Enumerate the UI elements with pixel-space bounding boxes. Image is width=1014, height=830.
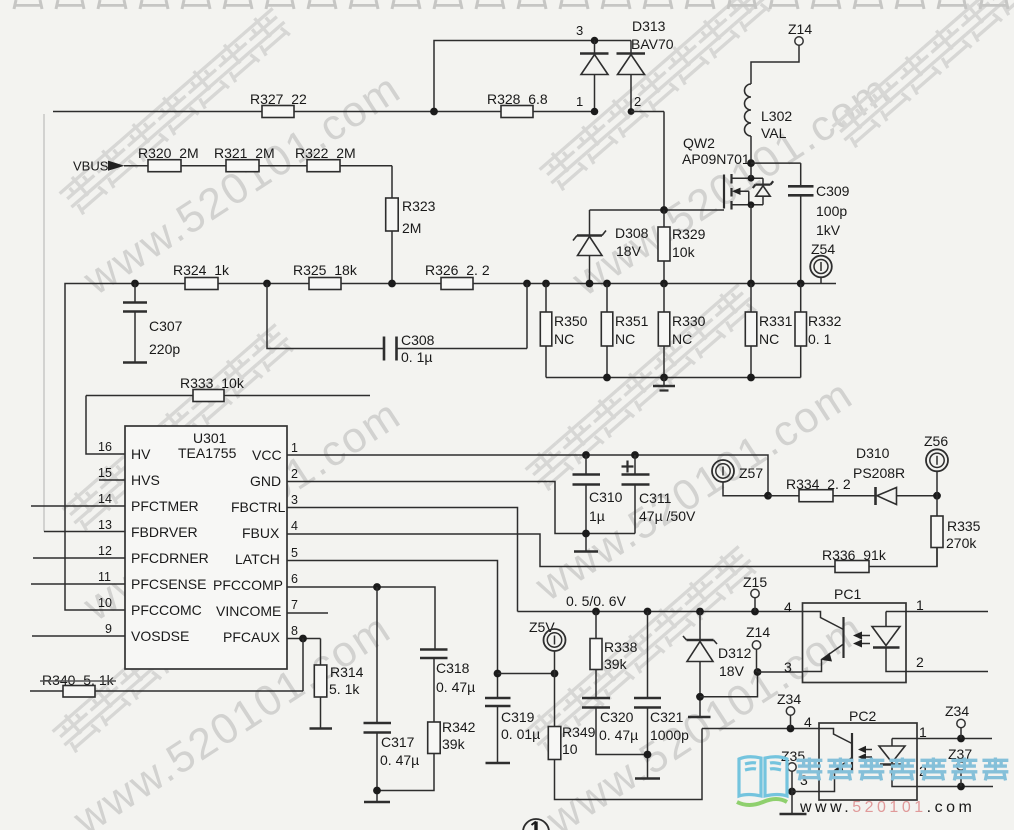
svg-text:L302: L302	[761, 108, 792, 124]
resistor R325	[309, 278, 341, 290]
node Z15 terminal	[751, 589, 759, 597]
node bus D308	[586, 280, 594, 288]
svg-text:Z14: Z14	[746, 624, 770, 640]
wire Z14 to L302	[751, 45, 799, 84]
svg-text:14: 14	[98, 492, 112, 506]
svg-text:R329: R329	[672, 226, 706, 242]
svg-text:C318: C318	[436, 660, 470, 676]
resistor R331	[745, 284, 757, 378]
svg-text:6: 6	[291, 572, 298, 586]
svg-text:FBUX: FBUX	[242, 525, 280, 541]
svg-text:R342: R342	[442, 719, 476, 735]
svg-text:C317: C317	[381, 734, 415, 750]
svg-text:R326 2. 2: R326 2. 2	[425, 262, 490, 278]
node rail R330	[660, 374, 668, 382]
resistor R328	[501, 106, 533, 118]
node drain	[748, 175, 755, 182]
node rail R351	[603, 374, 611, 382]
svg-text:220p: 220p	[149, 341, 180, 357]
node C310 top	[582, 451, 590, 459]
resistor R349	[548, 727, 702, 800]
wire PC2 pin3 stub	[792, 791, 819, 793]
wire Z37 stub	[960, 770, 962, 786]
svg-text:LATCH: LATCH	[235, 551, 280, 567]
logo chinese text	[796, 757, 1008, 780]
node C310 gnd row	[582, 530, 590, 538]
svg-text:Z57: Z57	[739, 465, 763, 481]
wire PC1 pin1 out	[906, 611, 988, 613]
svg-text:R331: R331	[759, 313, 793, 329]
ground rail	[653, 378, 675, 391]
node 1	[591, 108, 599, 116]
svg-text:R327 22: R327 22	[250, 91, 307, 107]
svg-text:C321: C321	[650, 709, 684, 725]
svg-text:HV: HV	[131, 446, 151, 462]
wire pin2 GND row	[287, 482, 635, 534]
svg-text:R338: R338	[604, 639, 638, 655]
resistor R327	[262, 106, 294, 118]
svg-text:R314: R314	[330, 664, 364, 680]
watermark tile 1 chinese	[57, 5, 294, 217]
svg-text:0. 01µ: 0. 01µ	[501, 726, 540, 742]
top edge cut-off watermark row	[10, 0, 1012, 9]
node Z34 left	[787, 725, 795, 733]
svg-text:C309: C309	[816, 183, 850, 199]
node 2	[628, 108, 635, 115]
svg-text:R323: R323	[402, 198, 436, 214]
svg-text:C308: C308	[401, 332, 435, 348]
svg-text:0. 47µ: 0. 47µ	[436, 679, 475, 695]
svg-text:R350: R350	[554, 313, 588, 329]
svg-text:0. 47µ: 0. 47µ	[380, 752, 419, 768]
wire VBUS row	[124, 165, 392, 167]
resistor R338	[590, 612, 602, 699]
svg-text:10: 10	[562, 741, 578, 757]
svg-text:0. 1: 0. 1	[808, 331, 832, 347]
wire gate branch	[590, 210, 725, 236]
svg-text:R336 91k: R336 91k	[822, 547, 887, 563]
node C311 top	[631, 451, 639, 459]
wire L302 to drain	[750, 136, 752, 178]
svg-text:PFCDRNER: PFCDRNER	[131, 550, 209, 566]
wire Z57 to node	[723, 482, 768, 496]
svg-text:R321 2M: R321 2M	[214, 145, 275, 161]
wire pin7 VINCOME stub	[287, 612, 328, 614]
capacitor C311	[622, 455, 650, 534]
svg-text:4: 4	[784, 599, 792, 615]
svg-text:VCC: VCC	[252, 447, 282, 463]
svg-text:QW2: QW2	[683, 135, 715, 151]
svg-text:2: 2	[291, 467, 298, 481]
svg-text:VBUS: VBUS	[73, 159, 109, 174]
PC2 coupling arrows	[858, 746, 872, 761]
node Z5V column	[551, 670, 559, 678]
diode D313a	[580, 41, 609, 112]
svg-text:3: 3	[291, 493, 298, 507]
node C317 bottom	[373, 787, 381, 795]
svg-text:C319: C319	[501, 709, 535, 725]
watermark tile 6 chinese	[523, 543, 760, 755]
watermark tile 2 chinese	[537, 0, 774, 193]
svg-text:PFCSENSE: PFCSENSE	[131, 576, 206, 592]
resistor R321	[226, 160, 259, 172]
svg-text:BAV70: BAV70	[631, 36, 674, 52]
wire Z56 stub	[936, 471, 938, 495]
svg-text:D313: D313	[632, 18, 666, 34]
resistor R320	[148, 160, 181, 172]
svg-text:13: 13	[98, 518, 112, 532]
wire Z34 right stub	[960, 728, 962, 739]
resistor R322	[307, 160, 340, 172]
svg-text:R349: R349	[562, 724, 596, 740]
svg-text:NC: NC	[615, 331, 635, 347]
svg-text:VINCOME: VINCOME	[216, 603, 281, 619]
node bus R332	[797, 280, 805, 288]
strike mark R340	[40, 680, 116, 682]
svg-text:PFCCOMC: PFCCOMC	[131, 602, 202, 618]
zener D312	[683, 612, 717, 718]
wire pin8 PFCAUX stub	[287, 638, 321, 640]
wire pin6 PFCCOMP row	[287, 587, 435, 650]
svg-text:Z5V: Z5V	[529, 619, 555, 635]
node Z35 terminal	[788, 763, 796, 771]
svg-text:R322 2M: R322 2M	[295, 145, 356, 161]
svg-text:2M: 2M	[402, 220, 421, 236]
svg-text:1: 1	[919, 724, 927, 740]
svg-text:R332: R332	[808, 313, 842, 329]
svg-text:39k: 39k	[442, 736, 466, 752]
watermark tile 7 chinese	[830, 0, 1014, 150]
wire D312 to PC1 pin3	[700, 672, 758, 697]
PC1 phototransistor	[803, 612, 844, 672]
svg-text:1µ: 1µ	[589, 508, 605, 524]
resistor R332	[795, 284, 807, 378]
logo book icon	[739, 757, 787, 796]
node row Z15	[751, 608, 759, 616]
svg-text:12: 12	[98, 544, 112, 558]
node row C321	[644, 608, 652, 616]
svg-text:5. 1k: 5. 1k	[329, 681, 360, 697]
wire PC1 pin3 row	[758, 671, 803, 673]
capacitor C318	[420, 650, 448, 723]
svg-text:FBCTRL: FBCTRL	[231, 499, 286, 515]
svg-text:GND: GND	[250, 473, 281, 489]
svg-text:Z15: Z15	[743, 574, 767, 590]
svg-text:3: 3	[784, 659, 792, 675]
resistor R335	[931, 496, 943, 567]
node pin8	[299, 635, 307, 643]
wire NC bottom rail	[546, 377, 801, 379]
wire R334 to D310	[833, 495, 876, 497]
node Z35 junction	[788, 788, 796, 796]
svg-text:1000p: 1000p	[650, 727, 689, 743]
VBUS arrow	[108, 161, 125, 171]
wire R323 to bus	[391, 231, 393, 284]
resistor R342	[377, 722, 440, 791]
PC1 coupling arrows	[853, 632, 870, 648]
svg-text:1: 1	[916, 597, 924, 613]
wire pin8 to R340 row	[302, 639, 304, 692]
test point Z56	[926, 449, 948, 471]
svg-text:PFCAUX: PFCAUX	[223, 629, 280, 645]
node Z34 terminal right	[957, 719, 965, 727]
svg-text:18V: 18V	[719, 663, 745, 679]
page marker circled 1	[523, 819, 549, 830]
wire PC2 pin2 out	[917, 786, 993, 788]
svg-text:18V: 18V	[616, 243, 642, 259]
ground Z35	[780, 792, 807, 815]
resistor R340	[30, 686, 303, 698]
wire Z35 stub	[791, 771, 793, 791]
svg-text:R351: R351	[615, 313, 649, 329]
svg-text:15: 15	[98, 466, 112, 480]
svg-text:Z14: Z14	[788, 21, 812, 37]
svg-text:HVS: HVS	[131, 472, 160, 488]
svg-text:16: 16	[98, 440, 112, 454]
PC2 phototransistor	[819, 729, 852, 792]
diode D310	[876, 487, 938, 505]
wire pin4 FBUX row	[287, 534, 835, 567]
svg-text:Z56: Z56	[924, 433, 948, 449]
wire C319 to Z5V column	[498, 673, 555, 675]
node row D312	[696, 608, 704, 616]
svg-text:270k: 270k	[946, 535, 977, 551]
capacitor C317	[364, 587, 392, 802]
svg-text:4: 4	[291, 519, 298, 533]
node Z14 terminal	[795, 37, 803, 45]
svg-text:R324 1k: R324 1k	[173, 262, 230, 278]
node bus R351	[603, 280, 611, 288]
PC1 LED	[872, 612, 906, 672]
wire PC2 pin1 out	[917, 738, 992, 740]
capacitor C321	[634, 612, 661, 779]
node bus R330	[660, 280, 668, 288]
svg-text:R330: R330	[672, 313, 706, 329]
svg-text:NC: NC	[554, 331, 574, 347]
svg-text:R320 2M: R320 2M	[138, 145, 199, 161]
node bus R350	[542, 280, 550, 288]
wire pin15 stub	[99, 479, 125, 481]
node Z37 junction	[957, 783, 965, 791]
svg-text:C311: C311	[639, 490, 672, 506]
logo green underline	[737, 799, 787, 805]
svg-text:100p: 100p	[816, 203, 847, 219]
wire node2 to gate column	[631, 112, 664, 211]
watermark tile 4 chinese	[523, 281, 760, 493]
svg-text:39k: 39k	[604, 656, 628, 672]
node row R338	[592, 608, 600, 616]
resistor R329	[658, 210, 670, 284]
svg-text:C320: C320	[600, 709, 634, 725]
wire to C309	[751, 163, 801, 186]
node rail R331	[747, 374, 755, 382]
resistor R350	[540, 284, 552, 378]
node L302 bottom	[747, 159, 755, 167]
svg-text:2: 2	[634, 94, 641, 109]
wire pin13 row	[44, 531, 125, 533]
wire Z15 stub	[754, 598, 756, 612]
resistor R314	[310, 639, 333, 729]
watermark tile 3 chinese	[60, 321, 297, 533]
svg-text:10: 10	[98, 596, 112, 610]
wire R333 to pin16	[86, 396, 125, 455]
svg-text:D312: D312	[718, 645, 752, 661]
zener D308	[573, 231, 606, 284]
svg-text:TEA1755: TEA1755	[178, 445, 237, 461]
test point Z54	[810, 256, 832, 278]
svg-text:PC2: PC2	[849, 708, 876, 724]
svg-text:0. 47µ: 0. 47µ	[599, 727, 638, 743]
svg-text:www.520101.com: www.520101.com	[799, 799, 975, 816]
test point Z57	[712, 460, 734, 482]
svg-text:C307: C307	[149, 318, 183, 334]
svg-text:PC1: PC1	[834, 586, 861, 602]
optocoupler PC1 box	[803, 603, 907, 683]
svg-text:1: 1	[291, 441, 298, 455]
node Z34 right junction	[957, 735, 965, 743]
node bus R323	[388, 280, 396, 288]
svg-text:NC: NC	[759, 331, 779, 347]
svg-text:PFCTMER: PFCTMER	[131, 498, 199, 514]
wire top bus	[53, 111, 595, 113]
node bus C308 left	[263, 280, 271, 288]
capacitor C320	[582, 698, 648, 755]
svg-text:0. 5/0. 6V: 0. 5/0. 6V	[566, 593, 627, 609]
node VCC corner	[764, 492, 772, 500]
IC U301 box	[125, 426, 287, 669]
node 3 of D313	[591, 37, 599, 45]
test point Z5V	[544, 629, 566, 651]
resistor R336	[835, 548, 937, 573]
svg-text:Z34: Z34	[777, 691, 801, 707]
wire PC1 pin2 out	[906, 671, 988, 673]
wire 0.5/0.6V row	[518, 611, 803, 613]
wire pin12 row	[33, 557, 125, 559]
wire riser to D313	[434, 41, 631, 112]
svg-text:47µ /50V: 47µ /50V	[639, 508, 696, 524]
svg-text:VOSDSE: VOSDSE	[131, 628, 189, 644]
inductor L302	[745, 84, 751, 136]
svg-text:R335: R335	[947, 518, 981, 534]
node gate junction	[660, 206, 668, 214]
wire pin3 FBCTRL row	[287, 508, 518, 612]
svg-text:1: 1	[576, 94, 583, 109]
node Z34 terminal left	[786, 707, 794, 715]
svg-text:10k: 10k	[672, 244, 696, 260]
svg-text:PS208R: PS208R	[853, 465, 905, 481]
node Z56	[933, 492, 941, 500]
svg-text:1kV: 1kV	[816, 222, 841, 238]
svg-text:U301: U301	[193, 430, 227, 446]
capacitor C308 loop	[267, 284, 527, 361]
svg-text:FBDRVER: FBDRVER	[131, 524, 198, 540]
svg-text:NC: NC	[672, 331, 692, 347]
svg-text:R325 18k: R325 18k	[293, 262, 358, 278]
svg-text:7: 7	[291, 598, 298, 612]
node Z14 terminal 2	[752, 641, 760, 649]
PC2 LED	[879, 739, 917, 787]
capacitor C307	[123, 284, 147, 363]
capacitor C310	[573, 455, 601, 552]
capacitor C319	[485, 674, 511, 764]
resistor R326	[441, 278, 473, 290]
resistor R333	[86, 390, 370, 402]
svg-text:2: 2	[916, 654, 924, 670]
svg-text:R328 6.8: R328 6.8	[487, 91, 548, 107]
svg-text:Z34: Z34	[945, 703, 969, 719]
wire pin9 row	[32, 635, 125, 637]
wire pin11 row	[31, 583, 125, 585]
watermark tile 5 chinese	[50, 543, 287, 755]
node Z14 pc1	[754, 668, 762, 676]
resistor R330	[658, 284, 670, 378]
faint left border wire	[43, 114, 45, 532]
svg-text:4: 4	[804, 714, 812, 730]
node source	[748, 201, 755, 208]
svg-text:5: 5	[291, 546, 298, 560]
svg-text:R334 2. 2: R334 2. 2	[786, 476, 851, 492]
resistor R334	[799, 490, 833, 502]
wire Z34 stub	[790, 715, 792, 728]
wire Z54 stub	[820, 277, 822, 283]
capacitor C309	[788, 186, 814, 283]
node Z37 terminal	[957, 762, 965, 770]
svg-text:8: 8	[291, 624, 298, 638]
svg-text:R333 10k: R333 10k	[180, 375, 245, 391]
node bus C307	[131, 280, 139, 288]
svg-text:11: 11	[98, 570, 111, 584]
svg-text:D310: D310	[856, 445, 890, 461]
svg-text:3: 3	[576, 23, 583, 38]
node pin6 C317	[373, 583, 381, 591]
wire Z5V to R349	[554, 651, 556, 727]
resistor R323	[386, 198, 399, 231]
wire to R323	[391, 166, 393, 200]
node bus R331	[747, 280, 755, 288]
svg-text:C310: C310	[589, 489, 623, 505]
wire PC2 pin4 row	[702, 728, 819, 730]
capacitor C311 polarity	[622, 461, 634, 473]
svg-text:9: 9	[105, 622, 112, 636]
node junction top bus	[430, 108, 438, 116]
node C319 top	[494, 670, 502, 678]
wire node to R334	[768, 495, 799, 497]
wire source to bus	[750, 205, 752, 284]
resistor R351	[601, 284, 613, 378]
wire pin5 LATCH row	[287, 561, 498, 674]
svg-text:R340 5. 1k: R340 5. 1k	[42, 672, 115, 688]
svg-text:VAL: VAL	[761, 125, 787, 141]
svg-text:D308: D308	[615, 225, 649, 241]
wire pin1 VCC row	[287, 455, 768, 496]
resistor R324	[185, 278, 218, 290]
wire pin14 row	[31, 505, 125, 507]
node D312 bottom	[696, 693, 704, 701]
node bus C308 right	[523, 280, 531, 288]
svg-text:0. 1µ: 0. 1µ	[401, 349, 432, 365]
optocoupler PC2 box	[819, 723, 917, 800]
transistor QW2	[724, 174, 773, 210]
diode D313b	[617, 41, 646, 112]
wire Z14 stub	[756, 649, 758, 672]
svg-text:PFCCOMP: PFCCOMP	[213, 577, 283, 593]
svg-text:AP09N701: AP09N701	[682, 151, 750, 167]
svg-text:Z54: Z54	[811, 241, 835, 257]
node C320/C321	[644, 751, 652, 759]
wire main bus	[65, 284, 836, 611]
